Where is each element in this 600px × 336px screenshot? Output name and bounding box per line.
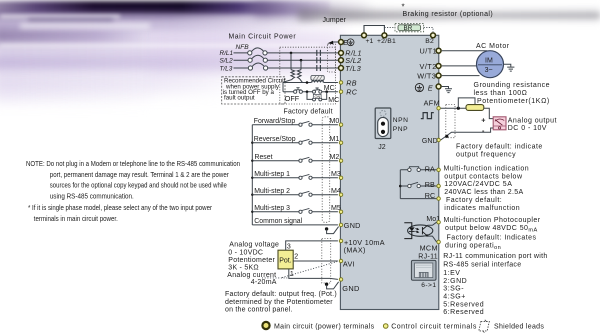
node AFM junction bbox=[457, 107, 460, 110]
terminal +10V bbox=[339, 239, 343, 243]
svg-text:120VAC/24VDC 5A: 120VAC/24VDC 5A bbox=[444, 181, 512, 188]
svg-text:W/T3: W/T3 bbox=[417, 72, 436, 81]
svg-text:Factory default: indicate: Factory default: indicate bbox=[456, 144, 543, 151]
contactor MC main contacts on R S T bbox=[317, 50, 321, 71]
terminal M3 bbox=[339, 176, 343, 180]
wire M0 row bbox=[252, 124, 338, 126]
terminal E with circled ground bbox=[339, 40, 344, 45]
svg-text:RA: RA bbox=[425, 164, 435, 173]
surge absorber across coil bbox=[312, 80, 323, 82]
terminal V/T2 bbox=[436, 63, 441, 68]
svg-text:RS-485 serial interface: RS-485 serial interface bbox=[443, 261, 521, 268]
svg-text:Multi-function indication: Multi-function indication bbox=[444, 165, 530, 172]
potentiometer Pot. bbox=[278, 250, 293, 269]
node bus M3 bbox=[251, 177, 253, 179]
terminal GND common bbox=[339, 223, 343, 227]
svg-text:U/T1: U/T1 bbox=[420, 47, 438, 56]
shield drain symbol at GND bbox=[325, 227, 328, 230]
svg-text:B2: B2 bbox=[425, 38, 434, 45]
svg-text:RB: RB bbox=[425, 180, 435, 189]
terminal S/L2 bbox=[339, 58, 344, 63]
svg-text:Potentiometer(1KΩ): Potentiometer(1KΩ) bbox=[477, 98, 550, 105]
svg-text:AVI: AVI bbox=[343, 260, 355, 269]
wire drop from R node bbox=[290, 53, 292, 70]
wire RC bbox=[400, 198, 436, 200]
legend main circuit terminal bbox=[262, 322, 269, 329]
shielded zone dotted box digital inputs bbox=[322, 117, 330, 223]
wire M4 row bbox=[252, 194, 338, 196]
analog output meter bbox=[493, 117, 506, 130]
switch Multi-step 1 bbox=[299, 174, 312, 179]
label ON boxed bbox=[313, 94, 321, 98]
terminal MCM bbox=[437, 240, 441, 244]
digital input rows bbox=[252, 117, 360, 230]
svg-text:Multi-step 2: Multi-step 2 bbox=[254, 188, 290, 195]
svg-text:Pot.: Pot. bbox=[279, 257, 292, 264]
svg-text:RC: RC bbox=[425, 191, 435, 200]
terminal RC out bbox=[437, 197, 441, 201]
push button ON (NO) on row B bbox=[313, 88, 322, 93]
terminal M1 bbox=[339, 141, 343, 145]
switch Reset bbox=[299, 157, 312, 162]
svg-text:PNP: PNP bbox=[393, 126, 408, 133]
terminal +1 bbox=[362, 33, 367, 38]
legend control circuit terminal bbox=[383, 324, 388, 329]
svg-text:fault output: fault output bbox=[224, 95, 255, 102]
svg-text:Factory default: Factory default bbox=[284, 109, 333, 116]
terminal GND analog bbox=[339, 278, 343, 282]
node left of bridge bbox=[306, 90, 309, 93]
breaker NFB pole R bbox=[248, 48, 267, 55]
terminal B2 bbox=[431, 33, 436, 38]
svg-text:Factory default:: Factory default: bbox=[446, 197, 502, 204]
shielded zone dotted box at input terminals bbox=[328, 44, 336, 72]
svg-text:Shielded leads: Shielded leads bbox=[494, 324, 544, 331]
svg-text:Potentiometer: Potentiometer bbox=[228, 257, 275, 264]
wire row A to RB bbox=[283, 82, 338, 84]
wire motor to ground bbox=[504, 64, 511, 67]
photocoupler internals bbox=[404, 223, 412, 239]
svg-text:MC: MC bbox=[324, 85, 335, 92]
svg-text:3K - 5KΩ: 3K - 5KΩ bbox=[228, 265, 259, 272]
svg-text:Main Circuit Power: Main Circuit Power bbox=[229, 33, 297, 40]
wire M2 row bbox=[252, 160, 338, 162]
ground symbol E bbox=[445, 89, 452, 93]
svg-text:+2/B1: +2/B1 bbox=[377, 38, 396, 45]
switch Multi-step 2 bbox=[299, 191, 312, 196]
node bus M4 bbox=[251, 194, 253, 196]
svg-text:M0: M0 bbox=[330, 117, 340, 125]
svg-text:J2: J2 bbox=[378, 144, 386, 151]
svg-text:0 - 10VDC: 0 - 10VDC bbox=[228, 249, 263, 256]
svg-text:GND: GND bbox=[422, 138, 438, 145]
svg-text:Multi-function Photocoupler: Multi-function Photocoupler bbox=[444, 217, 541, 224]
svg-text:sources for the optional copy: sources for the optional copy keypad and… bbox=[50, 181, 227, 190]
wire R phase bbox=[234, 52, 340, 54]
svg-text:Analog voltage: Analog voltage bbox=[229, 242, 279, 249]
braking resistor BR (optional) bbox=[395, 23, 424, 31]
wire E terminal to shield arrow bbox=[332, 41, 340, 43]
wire wiper loop bbox=[458, 98, 475, 108]
wire M5 row bbox=[252, 211, 338, 213]
wire row B to RC bbox=[283, 91, 338, 93]
svg-text:S/L2: S/L2 bbox=[220, 58, 234, 65]
svg-text:RJ-11 communication port with: RJ-11 communication port with bbox=[443, 253, 547, 260]
svg-text:(MAX): (MAX) bbox=[344, 246, 366, 255]
svg-text:Grounding resistance: Grounding resistance bbox=[474, 82, 551, 89]
svg-text:AC Motor: AC Motor bbox=[476, 43, 510, 50]
svg-text:V/T2: V/T2 bbox=[420, 62, 437, 71]
node bus M2 bbox=[251, 160, 253, 162]
svg-text:Common signal: Common signal bbox=[254, 218, 302, 225]
wire dotted current to AVI bbox=[282, 262, 337, 278]
svg-text:240VAC less than 2.5A: 240VAC less than 2.5A bbox=[444, 189, 523, 196]
svg-text:+: + bbox=[481, 115, 485, 124]
terminal +2/B1 bbox=[382, 33, 387, 38]
connector J2 NPN/PNP select bbox=[375, 108, 391, 139]
wire AFM to pot bbox=[441, 107, 466, 109]
terminal M0 bbox=[339, 123, 343, 127]
ground symbol motor bbox=[507, 67, 514, 71]
wire M3 row bbox=[252, 177, 338, 179]
svg-text:determined by the Potentiomete: determined by the Potentiometer bbox=[225, 299, 333, 306]
wire U to motor bbox=[442, 50, 487, 52]
switch Forward/Stop bbox=[299, 121, 312, 126]
svg-text:RC: RC bbox=[346, 88, 357, 97]
svg-text:less than 100Ω: less than 100Ω bbox=[474, 90, 528, 97]
switch Reverse/Stop bbox=[299, 139, 312, 144]
svg-text:Forward/Stop: Forward/Stop bbox=[254, 118, 296, 125]
resistor (left) in fault circuit bbox=[283, 70, 294, 83]
terminal M2 bbox=[339, 159, 343, 163]
dashed note box: recommended circuit bbox=[222, 77, 285, 104]
svg-text:on the control panel.: on the control panel. bbox=[225, 306, 293, 313]
svg-text:MC: MC bbox=[328, 97, 339, 104]
svg-text:MCM: MCM bbox=[420, 244, 438, 253]
terminal RC bbox=[339, 90, 343, 94]
svg-text:M2: M2 bbox=[330, 153, 340, 161]
terminal AFM bbox=[437, 106, 441, 110]
svg-text:BR: BR bbox=[404, 25, 413, 32]
svg-text:M1: M1 bbox=[330, 135, 340, 143]
potentiometer 1K bbox=[466, 105, 484, 111]
svg-text:Analog output: Analog output bbox=[508, 118, 557, 125]
svg-text:* If it is single phase model,: * If it is single phase model, please se… bbox=[28, 203, 213, 212]
node on R line bbox=[290, 52, 293, 55]
push button OFF (NC) bbox=[294, 88, 303, 94]
svg-text:1:EV: 1:EV bbox=[443, 270, 460, 277]
resistor (right) in fault circuit bbox=[297, 70, 302, 83]
terminal AVI bbox=[339, 259, 343, 263]
svg-text:T/L3: T/L3 bbox=[220, 65, 233, 72]
shielded zone dotted box analog bbox=[322, 239, 331, 284]
wire left bus digital inputs bbox=[251, 125, 253, 225]
dashed box recommended circuit area bbox=[280, 47, 336, 104]
wire T phase bbox=[234, 67, 340, 69]
svg-text:RB: RB bbox=[346, 78, 357, 87]
svg-text:terminals in main circuit powe: terminals in main circuit power. bbox=[34, 214, 118, 223]
svg-text:+1: +1 bbox=[366, 38, 374, 45]
terminal RB bbox=[339, 81, 343, 85]
shield drain symbol AFM bbox=[445, 135, 448, 138]
node on S line bbox=[300, 59, 303, 62]
wire parallel MC aux branch bbox=[307, 92, 327, 100]
svg-text:during operation: during operation bbox=[445, 242, 501, 251]
breaker NFB pole S bbox=[248, 55, 267, 62]
svg-text:output contacts below: output contacts below bbox=[444, 173, 523, 180]
contactor coil MC bbox=[312, 81, 324, 83]
contact RB (NO) bbox=[400, 185, 436, 187]
svg-text:Factory default: output freq.: Factory default: output freq. (Pot.) bbox=[225, 291, 337, 298]
svg-text:Main circuit (power) terminals: Main circuit (power) terminals bbox=[274, 324, 375, 331]
svg-text:4:SG+: 4:SG+ bbox=[443, 294, 466, 301]
svg-text:Multi-step 3: Multi-step 3 bbox=[254, 205, 290, 212]
svg-text:indicates malfunction: indicates malfunction bbox=[444, 205, 520, 212]
svg-text:Analog current: Analog current bbox=[227, 272, 276, 279]
terminal M5 bbox=[339, 210, 343, 214]
svg-text:Control circuit terminals: Control circuit terminals bbox=[391, 324, 477, 331]
wire pot pin2 to AVI bbox=[293, 260, 338, 262]
svg-text:6->1: 6->1 bbox=[421, 282, 436, 289]
wire E to ground symbol bbox=[442, 87, 449, 89]
relay output contacts bbox=[399, 170, 401, 199]
wire pot pin1 to GND bbox=[289, 269, 338, 280]
node right of bridge bbox=[325, 90, 328, 93]
contact MC aux bbox=[313, 98, 322, 101]
svg-text:NOTE: Do not plug in a Modem o: NOTE: Do not plug in a Modem or telephon… bbox=[26, 159, 240, 168]
terminal M4 bbox=[339, 193, 343, 197]
node bus M1 bbox=[251, 142, 253, 144]
wire dotted BR connections bbox=[384, 28, 433, 32]
svg-text:6:Reserved: 6:Reserved bbox=[443, 309, 484, 316]
svg-text:using RS-485 communication.: using RS-485 communication. bbox=[50, 191, 134, 200]
breaker NFB pole T bbox=[248, 63, 267, 70]
svg-text:DC 0 - 10V: DC 0 - 10V bbox=[508, 125, 547, 132]
wire photocoupler to Mo1 bbox=[428, 222, 437, 225]
svg-text:R/L1: R/L1 bbox=[220, 50, 234, 57]
svg-text:GND: GND bbox=[344, 221, 361, 230]
wire dotted analog current line bbox=[262, 277, 289, 279]
terminal W/T3 bbox=[436, 73, 441, 78]
terminal RA bbox=[437, 168, 441, 172]
svg-text:ON: ON bbox=[315, 95, 321, 99]
svg-text:RJ-11: RJ-11 bbox=[418, 253, 438, 260]
terminal GND analog out bbox=[437, 138, 441, 142]
svg-text:IM: IM bbox=[485, 58, 493, 65]
node bus M5 bbox=[251, 211, 253, 213]
legend shielded leads icon bbox=[479, 321, 490, 331]
svg-text:GND: GND bbox=[342, 284, 359, 293]
wire jumper between +1 and +2/B1 bbox=[364, 26, 384, 36]
wire S phase bbox=[234, 59, 340, 61]
svg-text:T/L3: T/L3 bbox=[345, 64, 361, 73]
contact RA (NC) bbox=[400, 169, 436, 171]
svg-text:Reverse/Stop: Reverse/Stop bbox=[254, 136, 296, 143]
svg-text:Braking resistor (optional): Braking resistor (optional) bbox=[403, 11, 494, 18]
wire left vertical joining rows bbox=[282, 83, 284, 92]
svg-text:port, permanent damage may res: port, permanent damage may result. Termi… bbox=[50, 170, 230, 179]
VFD drive main body U1 bbox=[340, 35, 438, 309]
wire W to motor bbox=[442, 75, 480, 77]
switch Multi-step 3 bbox=[299, 208, 312, 213]
terminal E right with circled ground bbox=[436, 84, 441, 89]
background photo blur approximation bbox=[0, 28, 340, 66]
svg-text:NFB: NFB bbox=[236, 44, 250, 51]
terminal R/L1 bbox=[339, 50, 344, 55]
wire pot to meter bbox=[484, 108, 493, 118]
wire drop from S node bbox=[300, 60, 302, 69]
svg-text:OFF: OFF bbox=[285, 94, 300, 103]
svg-text:-: - bbox=[482, 126, 485, 135]
svg-text:2: 2 bbox=[294, 253, 298, 260]
svg-text:Factory default: Indicates: Factory default: Indicates bbox=[447, 235, 537, 242]
svg-text:3~: 3~ bbox=[485, 67, 493, 74]
svg-text:Multi-step 1: Multi-step 1 bbox=[254, 171, 290, 178]
svg-text:3: 3 bbox=[287, 244, 291, 251]
svg-text:3:SG-: 3:SG- bbox=[443, 286, 464, 293]
svg-text:2:GND: 2:GND bbox=[443, 278, 467, 285]
wire meter return to GND bbox=[441, 128, 494, 140]
svg-text:4-20mA: 4-20mA bbox=[251, 279, 277, 286]
svg-text:Reset: Reset bbox=[255, 154, 273, 161]
terminal T/L3 bbox=[339, 66, 344, 71]
wire pot pin3 to +10V bbox=[286, 241, 338, 250]
svg-text:E: E bbox=[428, 83, 433, 92]
shielded zone dotted box AFM bbox=[446, 104, 455, 137]
svg-text:5:Reserved: 5:Reserved bbox=[443, 301, 484, 308]
wire photocoupler to MCM bbox=[428, 236, 437, 242]
svg-text:output frequency: output frequency bbox=[456, 151, 516, 158]
terminal RB out bbox=[437, 184, 441, 188]
terminal U/T1 bbox=[436, 48, 441, 53]
svg-text:Jumper: Jumper bbox=[323, 17, 347, 24]
wire M1 row bbox=[252, 142, 338, 144]
shield drain symbol analog bbox=[325, 283, 328, 286]
wire V to motor bbox=[442, 65, 478, 67]
svg-text:output below 48VDC 50mA: output below 48VDC 50mA bbox=[445, 225, 538, 234]
wire common signal row bbox=[252, 224, 338, 226]
svg-text:NPN: NPN bbox=[393, 117, 409, 124]
